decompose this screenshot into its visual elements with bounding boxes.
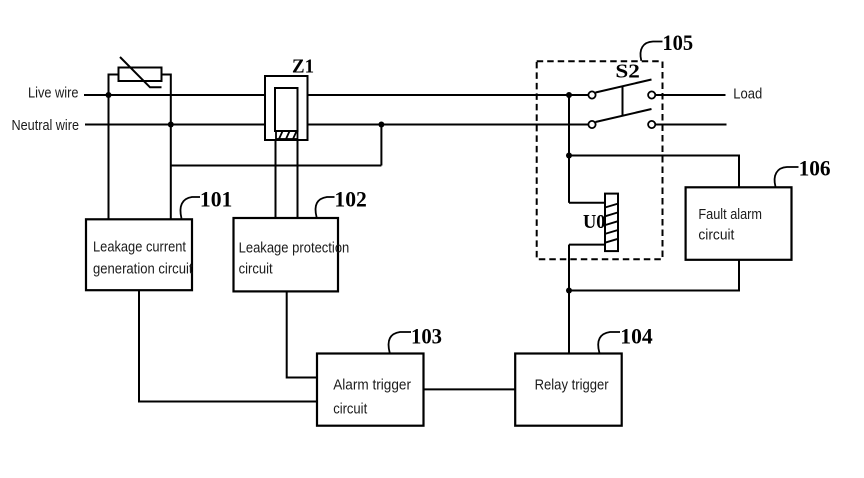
svg-text:Fault alarm: Fault alarm	[698, 207, 762, 223]
svg-text:Relay trigger: Relay trigger	[535, 377, 609, 393]
svg-text:Alarm trigger: Alarm trigger	[333, 377, 411, 393]
svg-text:103: 103	[411, 324, 442, 349]
svg-text:101: 101	[200, 187, 232, 212]
svg-text:104: 104	[620, 324, 652, 349]
svg-text:generation circuit: generation circuit	[93, 261, 193, 277]
svg-text:circuit: circuit	[698, 228, 734, 244]
svg-text:Load: Load	[733, 87, 762, 103]
svg-text:106: 106	[799, 156, 831, 181]
svg-text:Leakage current: Leakage current	[93, 239, 186, 255]
svg-text:circuit: circuit	[239, 262, 273, 278]
svg-text:102: 102	[334, 187, 366, 212]
svg-text:Neutral wire: Neutral wire	[12, 118, 80, 134]
svg-text:circuit: circuit	[333, 402, 367, 418]
svg-text:U0: U0	[583, 211, 606, 233]
svg-text:Leakage protection: Leakage protection	[239, 241, 350, 257]
svg-text:S2: S2	[615, 61, 640, 83]
svg-text:Z1: Z1	[292, 56, 314, 78]
svg-text:Live wire: Live wire	[28, 86, 79, 102]
svg-text:105: 105	[662, 30, 693, 55]
